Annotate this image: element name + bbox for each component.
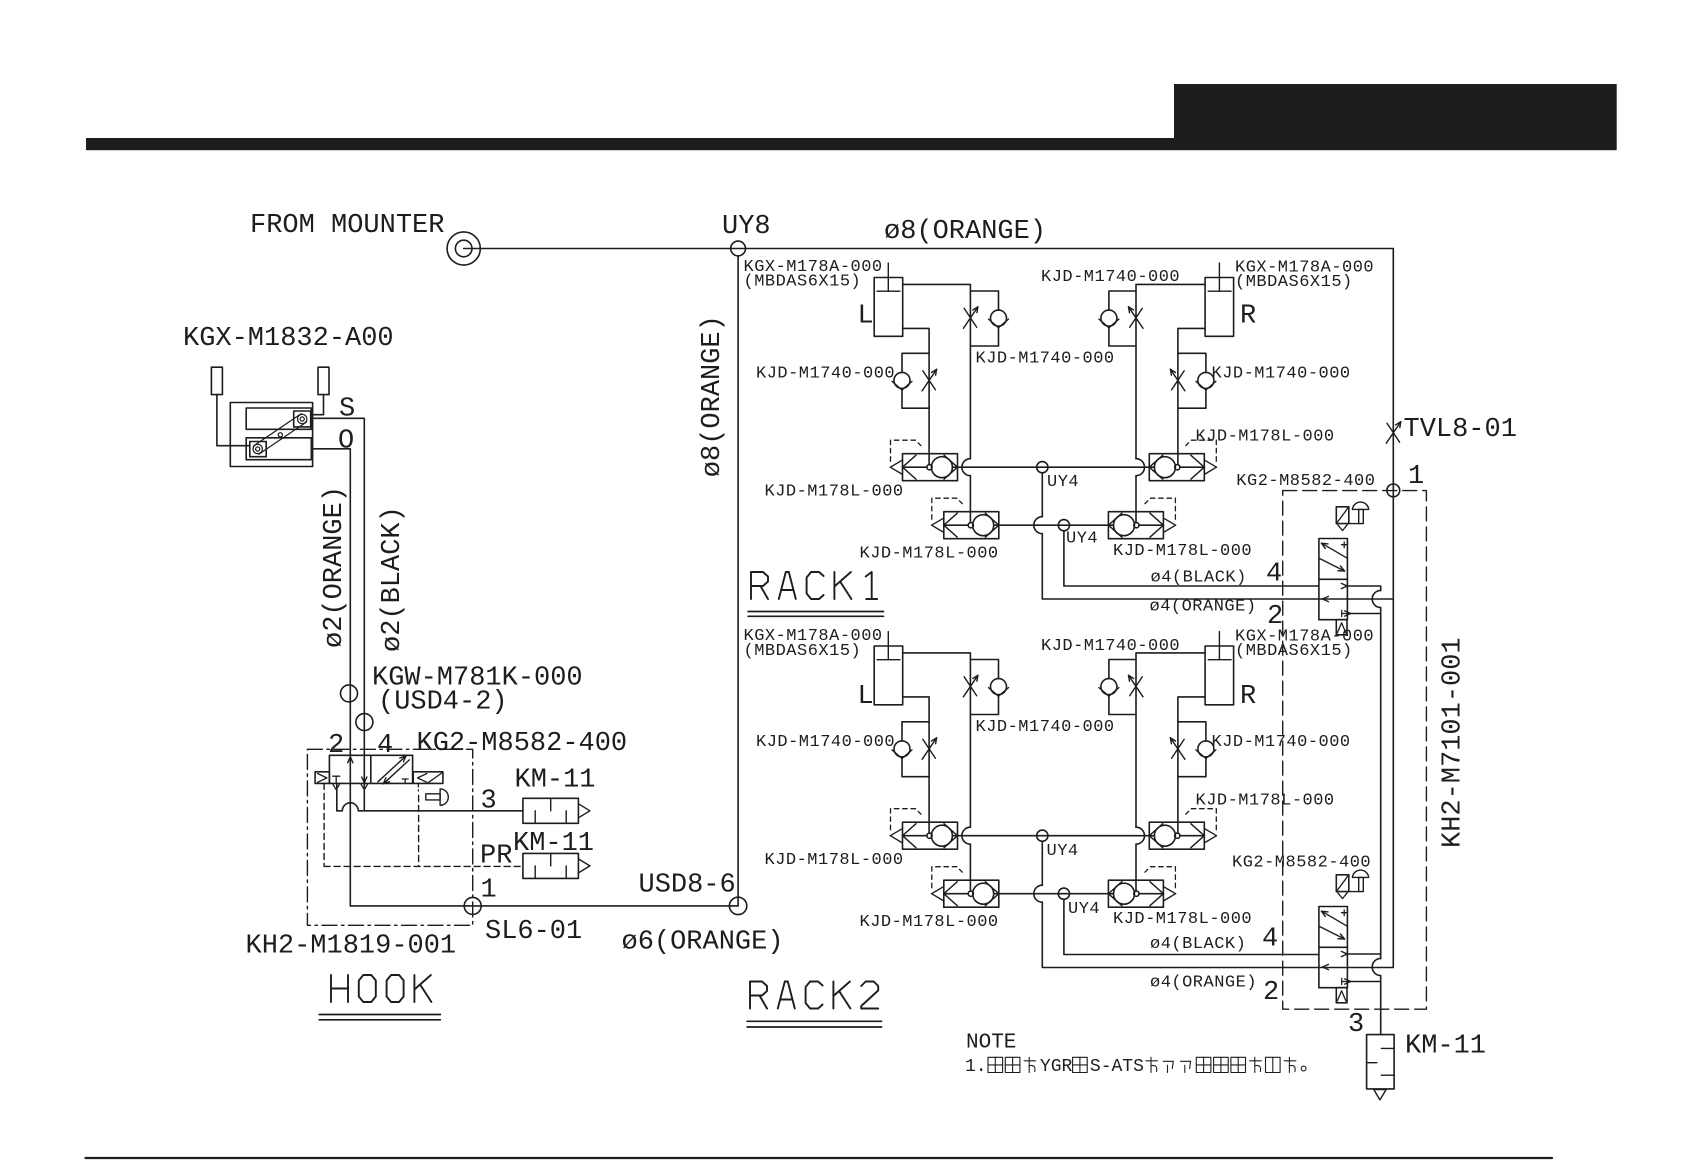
svg-text:UY4: UY4 xyxy=(1068,900,1100,919)
svg-text:KG2-M8582-400: KG2-M8582-400 xyxy=(417,729,628,759)
valve HOOK right position crossed arrows xyxy=(378,756,406,782)
node UY4 upper circle rack@0 xyxy=(1037,462,1048,473)
node UY8 (circle) xyxy=(731,241,746,256)
svg-text:KJD-M1740-000: KJD-M1740-000 xyxy=(756,733,895,752)
svg-text:UY4: UY4 xyxy=(1047,473,1079,492)
flow control KJD-M1740 upper-right rack@0 xyxy=(1109,291,1136,310)
silencer KM-11 (bottom) xyxy=(1367,1035,1395,1089)
svg-text:UY4: UY4 xyxy=(1066,530,1098,549)
cylinder L (KGX-M178A) rack@368.5 xyxy=(874,646,903,705)
valve KG2-M8582-400 body (right column)@368 xyxy=(1319,907,1348,988)
svg-text:KJD-M1740-000: KJD-M1740-000 xyxy=(976,350,1115,369)
pilot box (right valve)@0 xyxy=(1336,507,1349,524)
svg-text:(MBDAS6X15): (MBDAS6X15) xyxy=(744,642,862,661)
wire lower UY4 bus rack@368.5 xyxy=(999,893,1108,895)
cylinder R (KGX-M178A) rack@0 xyxy=(1205,278,1234,337)
valve KG2-M8582-400 body (HOOK) xyxy=(329,755,412,783)
wire valve bottom port (right valve)@0 xyxy=(1347,613,1380,615)
flow control KJD-M1740 upper-left rack@368.5 xyxy=(970,660,998,679)
pin terminal right (KGX-M1832) xyxy=(318,367,329,394)
exhaust stub with triangle (right valve)@368 xyxy=(1336,988,1347,1003)
svg-text:1.: 1. xyxy=(965,1057,987,1077)
wire PR dashed line and pilot return xyxy=(323,783,325,866)
wire HOOK port 1 to USD8-6 xyxy=(350,905,738,907)
wire upper UY4 bus rack@0 xyxy=(958,466,1150,468)
svg-text:USD8-6: USD8-6 xyxy=(639,871,736,901)
svg-text:UY4: UY4 xyxy=(1047,842,1079,861)
throttle TVL8-01 on phi8 drop xyxy=(1387,423,1400,442)
manual override button (right valve)@0 xyxy=(1349,523,1359,525)
shuttle valve KJD-M178L upper-right rack@368.5 xyxy=(1149,822,1204,849)
svg-text:KJD-M1740-000: KJD-M1740-000 xyxy=(1212,733,1351,752)
silencer KM-11 (HOOK PR) xyxy=(523,853,579,878)
svg-text:3: 3 xyxy=(481,787,497,817)
caption RACK1 xyxy=(751,572,768,599)
shuttle valve KJD-M178L upper-right rack@0 xyxy=(1149,454,1204,481)
svg-text:ø8(ORANGE): ø8(ORANGE) xyxy=(698,315,728,477)
svg-text:ø4(ORANGE): ø4(ORANGE) xyxy=(1150,598,1257,617)
wire cyl R top port rack@368.5 xyxy=(1136,653,1205,827)
node UY4 lower circle rack@0 xyxy=(1058,520,1069,531)
bottom border line xyxy=(86,1157,1553,1159)
wire valve bottom port (right valve)@368 xyxy=(1347,981,1380,983)
valve straight arrows lower box@0 xyxy=(1341,583,1347,586)
svg-text:KJD-M178L-000: KJD-M178L-000 xyxy=(765,483,904,502)
svg-text:KJD-M1740-000: KJD-M1740-000 xyxy=(1041,268,1180,287)
wire cyl R top port rack@0 xyxy=(1136,284,1205,458)
flow control KJD-M1740 lower-right rack@0 xyxy=(1178,353,1206,372)
svg-text:ø2(BLACK): ø2(BLACK) xyxy=(378,506,408,652)
wire valve A-port loop (right valve)@0 xyxy=(1347,586,1380,591)
svg-text:YGR: YGR xyxy=(1040,1057,1073,1077)
svg-text:2: 2 xyxy=(1263,978,1279,1008)
svg-text:ø8(ORANGE): ø8(ORANGE) xyxy=(884,217,1046,247)
enclosure KH2-M7101-001 (dashed) xyxy=(1283,491,1427,1010)
caption RACK2 xyxy=(750,982,767,1009)
jump arc on vertical at upper bus (right) rack@368.5 xyxy=(1136,827,1145,844)
wire cyl L bottom port rack@0 xyxy=(903,328,929,464)
fitting KGW-M781K-000 circle on black wire xyxy=(356,714,373,731)
caption HOOK underline xyxy=(319,1014,440,1016)
valve KG2-M8582-400 body (right column)@0 xyxy=(1319,539,1348,620)
wire cyl R bottom port rack@368.5 xyxy=(1178,697,1205,833)
wire UY4 lower to phi4 BLACK output rack@0 xyxy=(1064,531,1319,586)
svg-text:(USD4-2): (USD4-2) xyxy=(378,688,508,718)
wire FROM MOUNTER to UY8 and to right drop xyxy=(464,248,1394,250)
svg-text:S-ATS: S-ATS xyxy=(1090,1057,1144,1077)
pilot box (right valve)@368 xyxy=(1336,875,1349,892)
svg-text:TVL8-01: TVL8-01 xyxy=(1404,415,1517,445)
wire cyl L top port rack@0 xyxy=(903,284,971,458)
caption RACK2 underline xyxy=(747,1020,882,1022)
node UY4 lower circle rack@368.5 xyxy=(1058,888,1069,899)
svg-text:4: 4 xyxy=(377,731,393,761)
svg-text:NOTE: NOTE xyxy=(966,1032,1016,1055)
node UY4 upper circle rack@368.5 xyxy=(1037,830,1048,841)
svg-text:(MBDAS6X15): (MBDAS6X15) xyxy=(1235,273,1353,292)
svg-text:L: L xyxy=(858,302,874,332)
svg-text:ø4(BLACK): ø4(BLACK) xyxy=(1151,569,1247,588)
svg-text:R: R xyxy=(1240,682,1256,712)
svg-text:(MBDAS6X15): (MBDAS6X15) xyxy=(1235,642,1353,661)
svg-text:KJD-M1740-000: KJD-M1740-000 xyxy=(756,365,895,384)
svg-text:SL6-01: SL6-01 xyxy=(485,917,582,947)
caption RACK1 underline xyxy=(748,611,883,613)
shuttle valve KJD-M178L upper-left rack@0 xyxy=(903,454,958,481)
pin terminal left (KGX-M1832) xyxy=(211,367,222,394)
port SL6-01 circle xyxy=(464,897,481,914)
svg-text:KJD-M178L-000: KJD-M178L-000 xyxy=(1196,428,1335,447)
svg-text:KJD-M178L-000: KJD-M178L-000 xyxy=(765,851,904,870)
svg-text:ø4(BLACK): ø4(BLACK) xyxy=(1150,935,1246,954)
svg-text:KH2-M7101-001: KH2-M7101-001 xyxy=(1439,637,1469,848)
svg-text:KJD-M1740-000: KJD-M1740-000 xyxy=(1041,637,1180,656)
svg-text:KJD-M1740-000: KJD-M1740-000 xyxy=(976,718,1115,737)
svg-text:3: 3 xyxy=(1348,1010,1364,1040)
title block box (solid) xyxy=(1174,84,1617,150)
enclosure KH2-M1819-001 (chain line) xyxy=(307,749,472,925)
exhaust stub with triangle (right valve)@0 xyxy=(1336,620,1347,635)
flow control KJD-M1740 lower-right rack@368.5 xyxy=(1178,722,1206,741)
wire feed to bottom silencer xyxy=(1380,976,1382,1035)
svg-text:R: R xyxy=(1240,302,1256,332)
svg-text:2: 2 xyxy=(1267,602,1283,632)
jump arc on vertical at upper bus (left) rack@0 xyxy=(962,459,971,476)
svg-text:4: 4 xyxy=(1262,925,1278,955)
svg-text:FROM MOUNTER: FROM MOUNTER xyxy=(250,211,444,241)
wire UY4 upper to phi4 ORANGE output rack@0 xyxy=(1041,473,1043,517)
svg-text:KH2-M1819-001: KH2-M1819-001 xyxy=(246,932,457,962)
pilot box right (HOOK valve) xyxy=(413,772,443,784)
svg-text:KJD-M178L-000: KJD-M178L-000 xyxy=(860,545,999,564)
svg-text:KM-11: KM-11 xyxy=(513,829,594,859)
svg-text:ø2(ORANGE): ø2(ORANGE) xyxy=(320,486,350,648)
svg-text:1: 1 xyxy=(481,876,497,906)
manual override button (HOOK valve) xyxy=(426,794,440,800)
shuttle valve KJD-M178L lower-right rack@0 xyxy=(1108,512,1163,539)
node port 1 circle (KH2-M7101) xyxy=(1387,484,1400,497)
svg-text:ø4(ORANGE): ø4(ORANGE) xyxy=(1150,974,1257,993)
valve crossed arrows upper box@368 xyxy=(1322,911,1348,926)
svg-text:(MBDAS6X15): (MBDAS6X15) xyxy=(744,273,862,292)
fitting KGW-M781K-000 circle on orange wire xyxy=(341,685,358,702)
jump arc on vertical at upper bus (left) rack@368.5 xyxy=(962,827,971,844)
wire S (phi2 BLACK) down to HOOK valve port 4 xyxy=(311,418,365,811)
svg-text:KJD-M178L-000: KJD-M178L-000 xyxy=(860,913,999,932)
wire lower UY4 bus rack@0 xyxy=(999,524,1108,526)
svg-text:KJD-M178L-000: KJD-M178L-000 xyxy=(1196,792,1335,811)
svg-text:KGX-M1832-A00: KGX-M1832-A00 xyxy=(183,324,394,354)
wire UY4 lower to phi4 BLACK output rack@368.5 xyxy=(1064,899,1319,954)
cylinder L (KGX-M178A) rack@0 xyxy=(874,278,903,337)
manual override button (right valve)@368 xyxy=(1349,891,1359,893)
svg-text:ø6(ORANGE): ø6(ORANGE) xyxy=(622,928,784,958)
shuttle valve KJD-M178L lower-left rack@0 xyxy=(944,512,999,539)
cylinder R (KGX-M178A) rack@368.5 xyxy=(1205,646,1234,705)
wire A-port vertical run between right valves xyxy=(1380,608,1382,959)
valve HOOK left position arrows xyxy=(348,757,351,763)
flow control KJD-M1740 upper-left rack@0 xyxy=(970,291,998,310)
svg-text:UY8: UY8 xyxy=(722,212,771,242)
valve straight arrows lower box@368 xyxy=(1341,951,1347,954)
wire valve A-port loop (right valve)@368 xyxy=(1347,954,1380,959)
wire HOOK port 3 line (valve base to silencer) xyxy=(336,783,338,810)
svg-text:KM-11: KM-11 xyxy=(1405,1032,1486,1062)
shuttle valve KJD-M178L lower-right rack@368.5 xyxy=(1108,880,1163,907)
shuttle valve KJD-M178L lower-left rack@368.5 xyxy=(944,880,999,907)
wire phi8 right drop (supply to KH2-M7101 valves) xyxy=(1392,249,1394,968)
wire O (phi2 ORANGE) down to HOOK valve port 2 and port 1 line xyxy=(313,449,351,906)
jump arc on vertical at upper bus (right) rack@0 xyxy=(1136,459,1145,476)
wire right pin to sensor xyxy=(311,395,324,415)
flow control KJD-M1740 lower-left rack@0 xyxy=(902,353,929,372)
svg-text:KM-11: KM-11 xyxy=(515,766,596,796)
svg-text:1: 1 xyxy=(1408,462,1424,492)
wire left pin to sensor xyxy=(217,395,250,446)
wire cyl L top port rack@368.5 xyxy=(903,653,971,827)
shuttle valve KJD-M178L upper-left rack@368.5 xyxy=(903,822,958,849)
valve crossed arrows upper box@0 xyxy=(1322,543,1348,558)
wire upper UY4 bus rack@368.5 xyxy=(958,835,1150,837)
exhaust port symbol left (HOOK valve) xyxy=(315,772,329,784)
svg-text:S: S xyxy=(339,395,355,425)
svg-text:KJD-M178L-000: KJD-M178L-000 xyxy=(1113,542,1252,561)
sensor KGX-M1832-A00 body xyxy=(230,403,312,467)
svg-text:KJD-M1740-000: KJD-M1740-000 xyxy=(1212,365,1351,384)
svg-text:4: 4 xyxy=(1266,560,1282,590)
svg-text:L: L xyxy=(858,682,874,712)
svg-text:PR: PR xyxy=(480,842,512,872)
port USD8-6 circle xyxy=(729,897,746,914)
wire phi8 vertical drop from UY8 to USD8-6 xyxy=(737,256,739,906)
title block bar (thin) xyxy=(86,138,1174,150)
wire cyl L bottom port rack@368.5 xyxy=(903,697,929,833)
port FROM MOUNTER (double circle) xyxy=(447,232,480,265)
flow control KJD-M1740 lower-left rack@368.5 xyxy=(902,722,929,741)
flow control KJD-M1740 upper-right rack@368.5 xyxy=(1109,660,1136,679)
svg-text:KG2-M8582-400: KG2-M8582-400 xyxy=(1232,854,1371,873)
svg-text:2: 2 xyxy=(328,731,344,761)
svg-text:KG2-M8582-400: KG2-M8582-400 xyxy=(1236,472,1375,491)
caption HOOK xyxy=(330,975,332,1002)
svg-text:KJD-M178L-000: KJD-M178L-000 xyxy=(1113,910,1252,929)
silencer KM-11 (HOOK port 3) xyxy=(523,798,579,823)
wire UY4 upper to phi4 ORANGE output rack@368.5 xyxy=(1041,841,1043,885)
wire cyl R bottom port rack@0 xyxy=(1178,328,1205,464)
svg-text:O: O xyxy=(338,427,354,457)
